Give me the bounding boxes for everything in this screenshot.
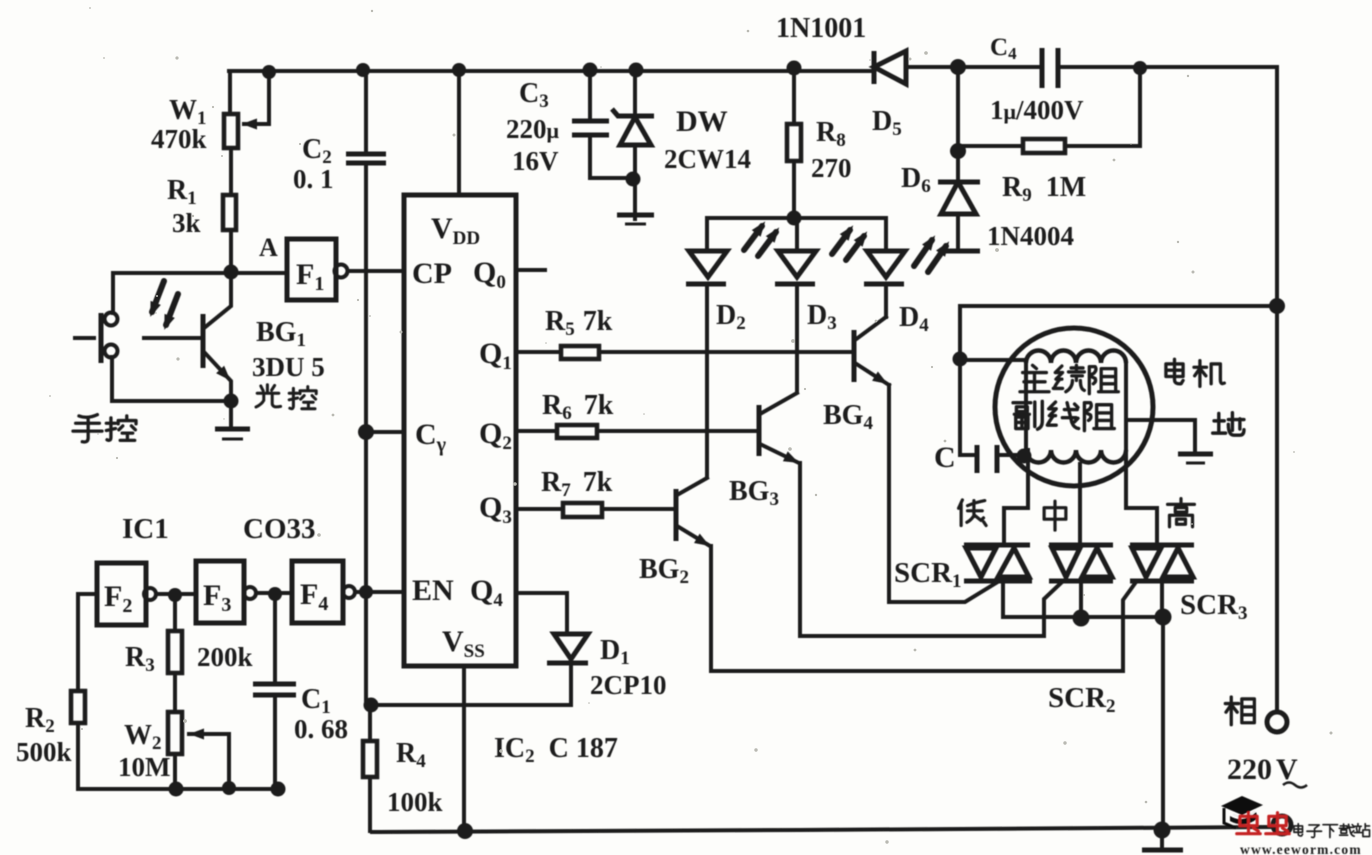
svg-text:1μ/400V: 1μ/400V: [990, 95, 1084, 125]
svg-text:10M: 10M: [118, 752, 170, 782]
svg-text:A: A: [259, 233, 278, 262]
svg-text:IC1: IC1: [122, 513, 169, 545]
svg-text:3k: 3k: [172, 208, 201, 238]
svg-text:CP: CP: [412, 257, 452, 290]
svg-text:1N4004: 1N4004: [987, 221, 1074, 251]
svg-text:www.eeworm.com: www.eeworm.com: [1240, 842, 1362, 855]
svg-text:500k: 500k: [16, 737, 72, 767]
svg-text:2CP10: 2CP10: [590, 670, 667, 700]
svg-text:3DU 5: 3DU 5: [252, 352, 325, 382]
svg-text:220V: 220V: [1227, 753, 1298, 786]
svg-text:220μ: 220μ: [506, 114, 560, 144]
svg-text:SCR3: SCR3: [1180, 589, 1248, 624]
svg-text:SCR2: SCR2: [1048, 682, 1116, 717]
svg-text:470k: 470k: [151, 124, 207, 154]
svg-text:IC2C 187: IC2C 187: [494, 733, 618, 767]
svg-text:200k: 200k: [197, 642, 253, 672]
svg-text:EN: EN: [412, 574, 454, 607]
svg-text:CO33: CO33: [243, 513, 316, 545]
svg-text:DW: DW: [676, 105, 728, 138]
svg-text:1N1001: 1N1001: [776, 13, 866, 44]
svg-text:100k: 100k: [387, 787, 443, 817]
svg-text:16V: 16V: [512, 146, 559, 176]
svg-text:C: C: [934, 441, 956, 474]
svg-text:0. 68: 0. 68: [294, 714, 348, 744]
svg-text:0. 1: 0. 1: [293, 164, 334, 194]
svg-text:SCR1: SCR1: [894, 557, 962, 592]
svg-text:270: 270: [811, 153, 852, 183]
svg-text:2CW14: 2CW14: [664, 144, 751, 174]
